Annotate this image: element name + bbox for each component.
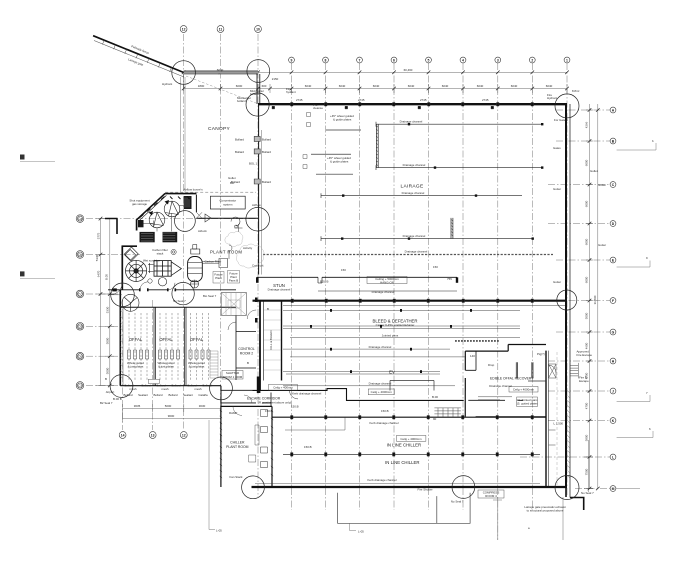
grid column 6 xyxy=(393,63,395,510)
wall bottom (south) xyxy=(252,486,568,488)
grille dark rect C vertical xyxy=(184,196,192,209)
grid row F xyxy=(556,300,610,302)
svg-text:150.B: 150.B xyxy=(304,445,312,449)
grid row Cb xyxy=(86,254,140,256)
svg-text:EV: EV xyxy=(389,370,395,375)
EV hatched band xyxy=(455,340,500,342)
dim top main line xyxy=(184,88,567,90)
left margin tag 1 xyxy=(20,155,55,162)
svg-text:5000: 5000 xyxy=(585,312,589,319)
conveyor line 2 xyxy=(283,309,520,311)
svg-text:CONTROL: CONTROL xyxy=(238,347,255,351)
svg-text:4600: 4600 xyxy=(585,342,589,349)
grid row Cc xyxy=(86,293,120,295)
wall col10 end cap xyxy=(257,377,260,393)
carbon filter tank xyxy=(188,245,203,282)
svg-text:Bollard: Bollard xyxy=(203,383,212,387)
svg-text:Activity: Activity xyxy=(243,246,253,250)
svg-text:IN LINE CHILLER: IN LINE CHILLER xyxy=(387,443,421,448)
wall plantroom west xyxy=(122,219,138,290)
svg-text:Fire Escape: Fire Escape xyxy=(577,353,593,357)
conveyor line 6 xyxy=(283,385,455,387)
bubble row K xyxy=(610,418,616,424)
bubble row Cd xyxy=(76,323,84,331)
svg-text:Bollard: Bollard xyxy=(262,137,271,141)
canopy diagonal tie dashed xyxy=(186,76,256,103)
chiller extra lines xyxy=(255,381,546,484)
bubble row B xyxy=(610,138,616,144)
svg-text:6470: 6470 xyxy=(97,270,101,277)
svg-text:5330: 5330 xyxy=(95,254,99,261)
grid column 1 xyxy=(566,63,568,497)
svg-text:B.05: B.05 xyxy=(105,274,109,280)
DIMENSION LINES xyxy=(96,71,600,541)
wall offal divider 1 xyxy=(153,307,155,385)
svg-text:& just plates: & just plates xyxy=(128,365,144,369)
svg-text:Bollard: Bollard xyxy=(262,180,271,184)
wall plantroom northeast xyxy=(196,195,258,219)
grid column 9 xyxy=(291,63,293,510)
wall bottom-right step L xyxy=(566,488,584,510)
offal pen gates mid xyxy=(128,350,211,359)
svg-text:6040: 6040 xyxy=(546,84,553,88)
grid row B xyxy=(556,140,610,142)
svg-text:L 1,500: L 1,500 xyxy=(554,422,564,426)
svg-text:bollard: bollard xyxy=(250,92,259,96)
grid row C xyxy=(548,184,610,186)
svg-text:& guide plates: & guide plates xyxy=(333,118,352,122)
svg-text:Airport: Airport xyxy=(106,390,115,394)
airlock door arc at plant west xyxy=(95,254,122,294)
svg-text:Cb: Cb xyxy=(78,253,82,257)
svg-text:B: B xyxy=(267,307,269,311)
svg-text:Ceilg + 4000mm: Ceilg + 4000mm xyxy=(400,437,422,441)
GRID LAYER xyxy=(86,34,610,540)
grid column 14 xyxy=(122,300,124,430)
drainage channel 2 xyxy=(376,165,543,170)
svg-text:Cc: Cc xyxy=(78,292,82,296)
bubble col 3 xyxy=(495,57,501,63)
svg-text:5800: 5800 xyxy=(585,434,589,441)
svg-text:OFFAL: OFFAL xyxy=(159,337,173,342)
matchline marks bottom xyxy=(209,420,364,534)
dim text right col xyxy=(585,121,598,475)
dark block small xyxy=(138,220,144,227)
svg-text:15. gutted plates: 15. gutted plates xyxy=(516,401,538,405)
bubble col 14 bottom xyxy=(119,432,126,439)
wall col12 escape corridor west xyxy=(220,386,222,407)
svg-text:Blo: Blo xyxy=(230,181,235,185)
svg-text:No Seal 7: No Seal 7 xyxy=(173,299,186,303)
CONTROL ROOM 2 xyxy=(222,347,255,379)
svg-text:Gullet: Gullet xyxy=(228,176,236,180)
svg-text:14: 14 xyxy=(121,433,125,437)
svg-text:system: system xyxy=(223,203,233,207)
wall EV south (jogged) xyxy=(253,389,464,401)
wall kill-bleed east xyxy=(281,301,283,381)
duct lines plant xyxy=(144,206,243,268)
wall offal divider 2 xyxy=(183,307,185,385)
svg-text:Jointed pans: Jointed pans xyxy=(382,334,399,338)
posts along top wall xyxy=(291,103,534,107)
svg-text:Drainage channel: Drainage channel xyxy=(402,191,425,195)
COMPRESSOR area below xyxy=(417,488,594,530)
svg-text:9600: 9600 xyxy=(168,414,175,418)
fan circle 2 xyxy=(149,211,165,228)
svg-text:2745: 2745 xyxy=(296,98,303,102)
lairage texts xyxy=(162,82,606,284)
wall chiller plantroom xyxy=(221,406,272,487)
EOR inner wall lower xyxy=(468,399,523,401)
svg-text:Cd: Cd xyxy=(78,325,82,329)
EOR east door arc xyxy=(549,365,557,373)
svg-text:6040: 6040 xyxy=(442,84,449,88)
grid row Ce xyxy=(86,355,122,357)
CHILLER AREA xyxy=(265,389,563,482)
bubble col 10 xyxy=(255,26,262,33)
svg-text:6040: 6040 xyxy=(408,84,415,88)
dim left vlines offal xyxy=(100,219,102,386)
svg-text:11: 11 xyxy=(219,27,223,31)
grid row J xyxy=(548,390,610,392)
grid row Cd xyxy=(86,325,122,327)
dim overall top line xyxy=(184,71,567,73)
svg-text:Gutter: Gutter xyxy=(553,187,561,191)
svg-text:Catch pit: Catch pit xyxy=(252,264,264,268)
dim right vline 2 xyxy=(597,104,599,489)
svg-text:bollard: bollard xyxy=(237,99,246,103)
svg-text:12: 12 xyxy=(182,27,186,31)
bubble row H xyxy=(610,358,616,364)
drainage connector verticals xyxy=(376,124,378,167)
svg-text:F: F xyxy=(612,299,614,303)
bubble row J xyxy=(610,388,616,394)
svg-text:Cf: Cf xyxy=(78,384,81,388)
svg-text:Escape: Escape xyxy=(579,379,589,383)
svg-text:Airlock: Airlock xyxy=(198,229,207,233)
svg-text:Drainage channel: Drainage channel xyxy=(403,234,426,238)
ref circle col12 rowCf xyxy=(210,377,233,400)
svg-text:12: 12 xyxy=(182,433,186,437)
bubble row Ca xyxy=(76,215,84,223)
svg-text:6040: 6040 xyxy=(339,84,346,88)
grid row L xyxy=(520,456,610,458)
svg-text:ROOM 4: ROOM 4 xyxy=(485,494,497,498)
fire escape ladder east xyxy=(570,349,592,383)
bubble row E xyxy=(610,257,616,263)
svg-text:(R. part invert above only): (R. part invert above only) xyxy=(258,401,291,405)
svg-text:2745: 2745 xyxy=(420,98,427,102)
canopy area xyxy=(208,87,296,184)
PLANT ROOM xyxy=(129,169,597,303)
wall hatch ticks on diagonal plant wall xyxy=(140,197,190,218)
bubble col 11 xyxy=(217,26,224,33)
svg-text:Ce: Ce xyxy=(78,355,82,359)
stairwell treads + cross xyxy=(221,293,246,316)
svg-text:6000: 6000 xyxy=(585,200,589,207)
wall top (north, lairage) xyxy=(258,103,567,105)
svg-text:Drainage channel: Drainage channel xyxy=(405,250,428,254)
svg-text:1800: 1800 xyxy=(198,84,205,88)
grid column 5 xyxy=(428,63,430,510)
svg-text:Sealant: Sealant xyxy=(138,393,148,397)
dim bottom right vline xyxy=(587,440,589,492)
drainage channel 1 xyxy=(376,122,543,127)
left margin tag 2 xyxy=(20,271,55,278)
ref circle plant inner xyxy=(175,211,196,232)
svg-text:B2 Seal 7: B2 Seal 7 xyxy=(100,401,113,405)
EOR interior rails xyxy=(434,362,533,417)
wall canopy col10 post line xyxy=(257,74,260,104)
bleed texts xyxy=(267,307,418,391)
bubble row Cb xyxy=(76,251,84,259)
svg-text:Hydrant: Hydrant xyxy=(547,96,557,100)
wall airlock above chiller xyxy=(270,393,272,407)
svg-text:Kerb drainage channel: Kerb drainage channel xyxy=(367,478,396,482)
svg-text:Bio Seal 7: Bio Seal 7 xyxy=(203,294,217,298)
grid row E xyxy=(556,259,610,261)
bubble row F xyxy=(610,298,616,304)
svg-text:G: G xyxy=(612,330,615,334)
wall col10 kill strip xyxy=(259,301,261,391)
svg-text:5775: 5775 xyxy=(97,232,101,239)
svg-text:Ceilg + 4000mm: Ceilg + 4000mm xyxy=(371,390,393,394)
wet scrubber block xyxy=(148,261,181,277)
svg-text:7500: 7500 xyxy=(585,468,589,475)
svg-text:2745: 2745 xyxy=(482,98,489,102)
svg-text:6040: 6040 xyxy=(511,84,518,88)
bubble row D xyxy=(610,221,616,227)
svg-text:5: 5 xyxy=(428,58,430,62)
svg-text:6040: 6040 xyxy=(373,84,380,88)
svg-text:CANOPY: CANOPY xyxy=(208,126,231,132)
svg-text:Bollard: Bollard xyxy=(235,137,244,141)
svg-text:2745: 2745 xyxy=(358,98,365,102)
BLEED AREA LINES xyxy=(272,103,565,457)
grid row Cf xyxy=(86,385,122,387)
bubble row Cc xyxy=(76,290,84,298)
ref circle col10 canopy xyxy=(247,60,270,83)
stun mid line xyxy=(318,290,457,292)
chiller plant equipment xyxy=(233,395,268,468)
ref circle plant rowCc xyxy=(172,282,194,304)
grid row M xyxy=(575,488,610,490)
svg-text:Bollard: Bollard xyxy=(142,383,151,387)
grid row G xyxy=(556,331,610,333)
grid column 3 xyxy=(497,63,499,540)
svg-text:6000: 6000 xyxy=(585,238,589,245)
door arcs row Cc corridor xyxy=(140,282,256,330)
svg-text:stack: stack xyxy=(157,251,164,255)
dim text top row xyxy=(198,68,553,88)
dim right vline 1 xyxy=(589,104,591,489)
pie fan lower left xyxy=(122,294,139,311)
svg-text:ROOM 2: ROOM 2 xyxy=(240,352,253,356)
WALLS xyxy=(93,36,584,524)
bubble row C xyxy=(610,182,616,188)
svg-text:7: 7 xyxy=(359,58,361,62)
svg-text:Hydrant: Hydrant xyxy=(162,82,172,86)
gear circle xyxy=(171,249,176,254)
grid column 8 xyxy=(325,63,327,510)
svg-text:BOL 1: BOL 1 xyxy=(249,162,257,166)
svg-text:90: 90 xyxy=(433,417,437,421)
GRID BUBBLES xyxy=(76,26,616,492)
svg-text:4266: 4266 xyxy=(585,121,589,128)
grid row K xyxy=(548,420,610,422)
svg-text:Gates: Gates xyxy=(553,146,561,150)
svg-text:2: 2 xyxy=(531,58,533,62)
svg-text:6040: 6040 xyxy=(477,84,484,88)
svg-text:Drainage channel: Drainage channel xyxy=(369,382,392,386)
svg-text:Drop: Drop xyxy=(488,363,495,367)
wall stairwell xyxy=(221,293,246,316)
bubble row Cf xyxy=(76,382,84,390)
svg-text:L-05: L-05 xyxy=(358,530,364,534)
svg-text:L-05: L-05 xyxy=(216,529,222,533)
ref circle col10 wall xyxy=(246,93,269,116)
svg-text:13: 13 xyxy=(151,433,155,437)
svg-text:Fire Shutter: Fire Shutter xyxy=(417,488,432,492)
east corridor equipment xyxy=(549,352,558,486)
svg-text:B: B xyxy=(105,377,107,381)
conveyor line EV xyxy=(283,371,440,374)
svg-text:Ca: Ca xyxy=(78,217,82,221)
offal pen rails xyxy=(129,313,209,380)
svg-text:150.B: 150.B xyxy=(381,409,389,413)
wall gate L near row Ca xyxy=(105,219,118,235)
bubble col 12 bottom xyxy=(180,432,187,439)
svg-text:Bollard: Bollard xyxy=(154,393,163,397)
svg-text:150: 150 xyxy=(341,268,346,272)
drainage vertical strip xyxy=(451,218,453,239)
grid column 10 xyxy=(257,34,259,497)
svg-text:140: 140 xyxy=(470,354,475,358)
svg-text:Plant: Plant xyxy=(215,276,222,280)
bubble row M xyxy=(610,486,616,492)
svg-text:6000: 6000 xyxy=(585,276,589,283)
bubble col 4 xyxy=(460,57,466,63)
wall right (east) thick xyxy=(565,103,567,488)
fence line right of diagonal xyxy=(183,74,185,89)
svg-text:60,460: 60,460 xyxy=(404,68,413,72)
EOR room xyxy=(470,352,545,407)
svg-text:1: 1 xyxy=(566,58,568,62)
bubble row G xyxy=(610,329,616,335)
ref circle west rowCc xyxy=(111,283,135,307)
wall chiller mid xyxy=(283,453,540,455)
drainage channel 5 long xyxy=(263,254,553,256)
grid column 13 xyxy=(152,300,154,430)
posts below top wall xyxy=(272,106,494,109)
dim offal bottom line 2 xyxy=(123,418,221,420)
svg-text:6: 6 xyxy=(393,58,395,62)
ESCAPE CORRIDOR xyxy=(226,396,291,479)
svg-text:31,500: 31,500 xyxy=(593,295,597,304)
svg-text:Catalfa: Catalfa xyxy=(198,393,208,397)
svg-text:600: 600 xyxy=(262,84,267,88)
wall stun north xyxy=(257,276,457,278)
svg-text:Pig(?): Pig(?) xyxy=(537,352,545,356)
svg-text:10: 10 xyxy=(256,27,260,31)
svg-text:6040: 6040 xyxy=(305,84,312,88)
svg-text:cleanse: cleanse xyxy=(313,106,323,110)
wall row F (stun south) xyxy=(253,300,567,302)
grid row D xyxy=(548,223,610,225)
small pump circle xyxy=(158,278,166,286)
svg-text:B: B xyxy=(247,361,249,365)
svg-text:Kerb drainage channel: Kerb drainage channel xyxy=(369,421,398,425)
svg-text:ROOM 1 100M: ROOM 1 100M xyxy=(223,375,243,379)
wall EOR inner small room xyxy=(465,351,476,370)
svg-text:B.00 B: B.00 B xyxy=(113,397,122,401)
svg-text:3030: 3030 xyxy=(199,404,206,408)
conveyor line 3 pair xyxy=(283,326,520,328)
svg-text:EDIBLE OFFAL RECOVERY: EDIBLE OFFAL RECOVERY xyxy=(490,377,534,381)
svg-text:Drainage channel: Drainage channel xyxy=(268,288,291,292)
svg-text:Gutter: Gutter xyxy=(598,243,606,247)
grid column 7 xyxy=(359,63,361,510)
svg-text:LAIRAGE: LAIRAGE xyxy=(401,183,424,189)
svg-text:B.00: B.00 xyxy=(432,395,438,399)
svg-text:Drainage channel: Drainage channel xyxy=(372,290,395,294)
svg-text:IN LINE CHILLER: IN LINE CHILLER xyxy=(385,460,419,465)
svg-text:mesh: mesh xyxy=(194,387,201,391)
wall col10 lairage west xyxy=(258,104,260,275)
svg-text:CHILLER: CHILLER xyxy=(230,441,245,445)
svg-text:8.8m²: 8.8m² xyxy=(572,89,579,93)
svg-text:No Seal 7: No Seal 7 xyxy=(451,500,464,504)
conveyor line 1 xyxy=(283,304,565,306)
wall plantroom diagonal xyxy=(137,193,166,219)
bubble col 13 bottom xyxy=(149,432,156,439)
wall EOR room xyxy=(465,345,546,417)
svg-text:4700: 4700 xyxy=(585,402,589,409)
drainage line bleed xyxy=(283,348,450,350)
wall row Cc corridor north xyxy=(108,289,236,291)
extra conveyor ticks xyxy=(310,309,472,373)
svg-text:HANG-ON: HANG-ON xyxy=(380,281,394,285)
svg-text:Fan Stack: Fan Stack xyxy=(229,475,243,479)
stun end jambs xyxy=(456,277,458,283)
svg-text:No Seal 7: No Seal 7 xyxy=(581,491,594,495)
svg-text:OFFAL: OFFAL xyxy=(190,337,204,342)
ref circle col4 bottom xyxy=(452,476,475,499)
svg-text:8: 8 xyxy=(325,58,327,62)
wall chiller north corridor xyxy=(272,416,546,418)
LAIRAGE INTERIOR xyxy=(263,113,553,255)
dim bottom compressor xyxy=(497,497,499,540)
ref circle col1 bottom xyxy=(555,476,579,500)
dim offal bottom line 1 xyxy=(123,407,221,409)
cloud revision bubble xyxy=(225,231,264,268)
bubble col 5 xyxy=(426,57,432,63)
bubble row Ce xyxy=(76,352,84,360)
concentrator box xyxy=(210,196,245,209)
bubble col 6 xyxy=(391,57,397,63)
bollard text rows below offal xyxy=(100,377,212,405)
grid row A xyxy=(556,109,610,111)
filter stack small xyxy=(191,280,199,288)
svg-text:Pans B: Pans B xyxy=(229,279,238,283)
drainage channel 3 xyxy=(321,193,522,198)
svg-text:6000: 6000 xyxy=(236,84,243,88)
east wall hatch lower xyxy=(567,390,570,478)
REFERENCE CIRCLES xyxy=(110,60,579,500)
svg-text:hydrant: hydrant xyxy=(286,90,296,94)
svg-text:OFFAL: OFFAL xyxy=(129,337,143,342)
palisade fence diagonal xyxy=(93,36,184,73)
